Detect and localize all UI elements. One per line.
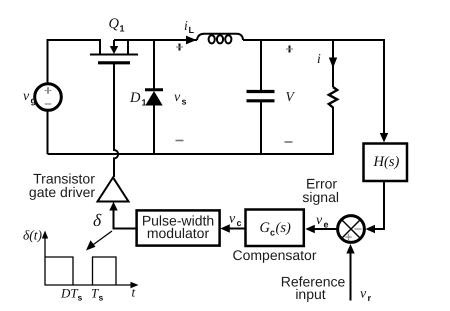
svg-text:G: G [260,220,271,236]
svg-text:i: i [184,18,188,33]
svg-text:signal: signal [302,189,339,205]
svg-text:1: 1 [120,24,125,34]
block Gc(s) compensator [246,210,304,247]
svg-text:s: s [182,97,187,107]
svg-text:v: v [360,287,367,302]
svg-text:δ(t): δ(t) [23,228,43,243]
svg-text:c: c [270,228,275,238]
svg-text:Compensator: Compensator [232,247,316,263]
svg-text:D: D [129,90,141,106]
wire summer to compensator [311,228,337,230]
inductor L [197,34,243,44]
waveform pulse 1 [45,257,73,285]
wire top rail right segment [243,39,384,41]
svg-text:DT: DT [60,286,78,301]
wire compensator to PWM [226,228,246,230]
svg-text:modulator: modulator [147,225,210,241]
transistor Q1 [90,39,138,63]
svg-text:gate driver: gate driver [29,184,95,200]
delta(t) waveform axes [42,231,139,289]
load resistor R [329,40,337,154]
svg-text:(s): (s) [276,220,291,236]
svg-text:1: 1 [142,98,147,108]
block H(s) [364,144,408,182]
wire gate lead with hop [114,64,118,177]
svg-text:e: e [324,220,329,230]
current arrow iL [186,36,197,45]
svg-text:L: L [189,25,195,35]
wire vg bottom [47,111,49,155]
svg-text:(s): (s) [384,154,399,170]
svg-text:i: i [317,51,321,66]
svg-text:v: v [229,212,236,227]
wire reference input arrow [350,249,352,301]
svg-text:g: g [31,96,37,106]
svg-text:r: r [368,293,372,303]
svg-text:Q: Q [109,16,120,32]
wire right rail to H(s) [383,39,385,134]
arrow delta to waveform [90,231,112,247]
svg-text:c: c [237,218,242,228]
capacitor C [247,40,275,154]
svg-text:v: v [174,90,181,105]
minus sign vs [176,140,184,142]
block pulse-width modulator [137,210,220,245]
wire PWM to gate driver [114,208,137,229]
diode D1 [145,40,163,154]
svg-text:s: s [99,293,104,303]
gate driver triangle [98,178,129,202]
svg-text:v: v [316,213,323,228]
svg-text:δ: δ [93,210,102,230]
svg-text:input: input [295,286,325,302]
wire top rail main segment [114,39,197,41]
wire bottom rail [48,153,334,155]
waveform pulse 2 [93,257,117,285]
minus sign V [285,141,293,143]
wire H(s) to summer [371,181,384,229]
summing junction [338,216,365,243]
plus sign vs [176,44,183,51]
voltage source Vg [35,84,62,111]
wire top rail left segment [48,40,101,83]
svg-text:t: t [132,285,136,300]
svg-text:v: v [23,89,30,104]
current arrow i [329,58,337,69]
plus sign V [286,46,293,53]
svg-text:s: s [78,293,83,303]
